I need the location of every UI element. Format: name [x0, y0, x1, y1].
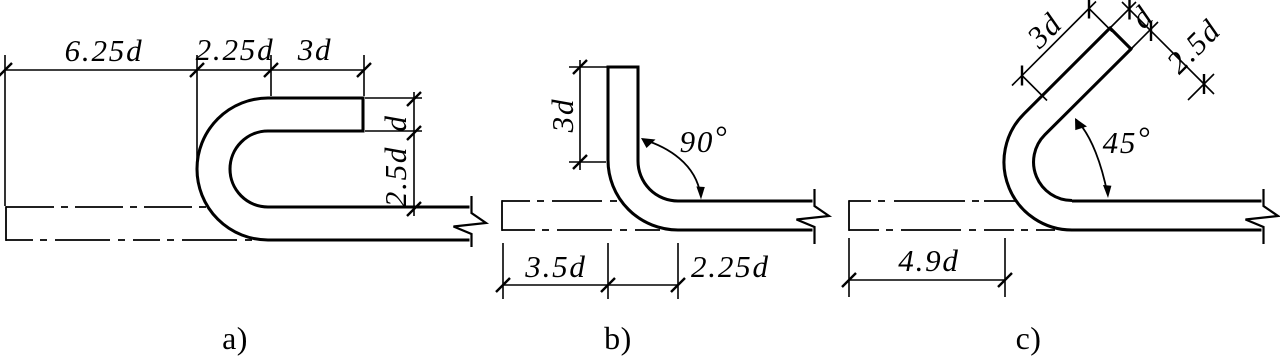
- svg-text:4.9d: 4.9d: [898, 243, 959, 278]
- svg-text:90°: 90°: [680, 119, 729, 159]
- svg-text:b): b): [604, 320, 632, 356]
- svg-text:a): a): [222, 320, 248, 356]
- svg-text:d: d: [378, 114, 413, 131]
- svg-text:2.25d: 2.25d: [196, 32, 275, 67]
- svg-text:3d: 3d: [297, 32, 333, 67]
- svg-text:c): c): [1016, 320, 1042, 356]
- svg-text:6.25d: 6.25d: [65, 33, 144, 68]
- svg-text:3.5d: 3.5d: [524, 249, 586, 284]
- svg-text:2.5d: 2.5d: [378, 146, 413, 207]
- svg-text:3d: 3d: [545, 98, 580, 134]
- svg-text:2.25d: 2.25d: [691, 249, 770, 284]
- svg-text:45°: 45°: [1103, 120, 1152, 160]
